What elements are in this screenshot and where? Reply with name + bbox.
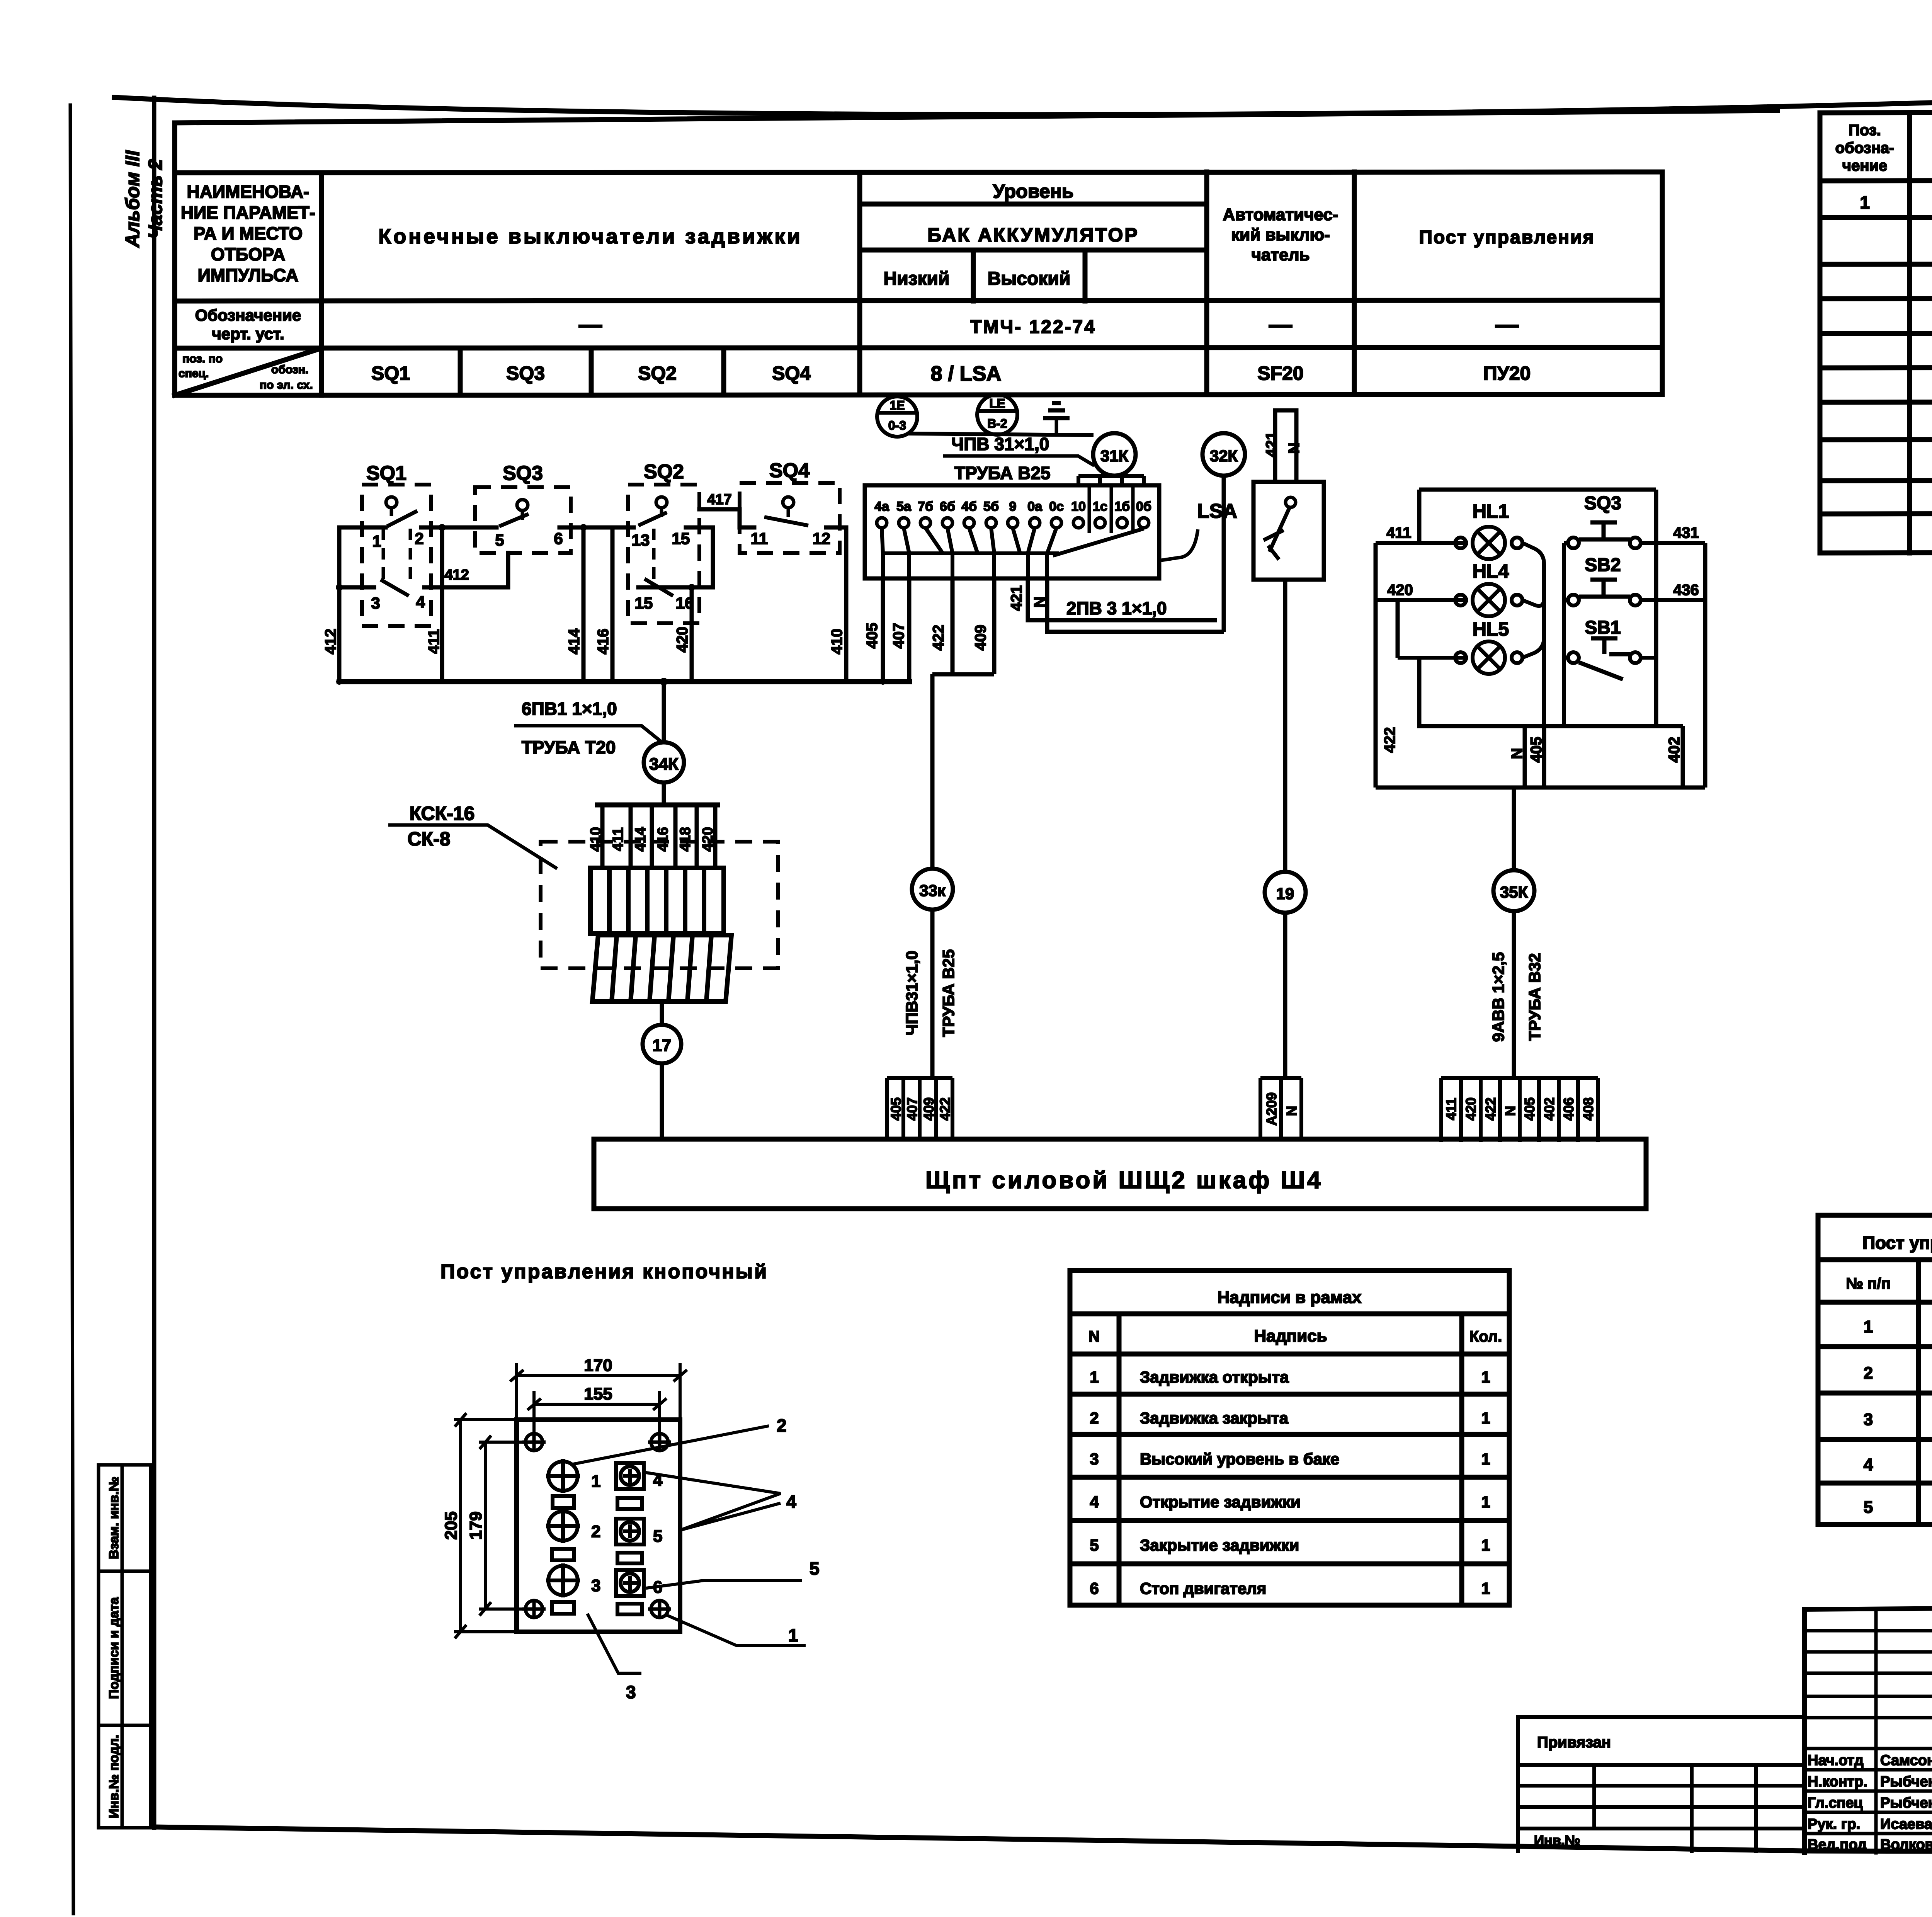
bracket to 31K [1078,476,1144,486]
svg-text:9: 9 [1009,499,1017,514]
terminal strip box LSA [865,485,1159,578]
svg-text:5: 5 [653,1527,662,1546]
svg-text:1: 1 [1481,1450,1490,1468]
svg-text:Привязан: Привязан [1537,1734,1611,1751]
button holes [616,1463,644,1614]
svg-text:Закрытие задвижки: Закрытие задвижки [1140,1536,1299,1554]
cable marker 31K [1093,433,1136,476]
svg-text:422: 422 [1483,1097,1498,1121]
svg-text:410: 410 [828,629,845,655]
svg-text:17: 17 [653,1036,672,1055]
svg-text:Поз.: Поз. [1849,122,1881,139]
limit switch SQ4 [740,459,840,553]
svg-text:3: 3 [591,1576,600,1595]
svg-text:Надпись: Надпись [1254,1327,1327,1345]
svg-text:Самсонов: Самсонов [1880,1752,1932,1769]
svg-text:411: 411 [1443,1098,1459,1120]
svg-text:0б: 0б [1136,499,1151,514]
svg-text:412: 412 [322,629,339,655]
svg-text:Автоматичес-: Автоматичес- [1223,205,1338,224]
svg-text:3: 3 [626,1682,636,1702]
svg-text:3: 3 [1864,1410,1873,1429]
cable marker 19 [1283,580,1287,872]
junction dots on SQ bus [660,678,668,685]
svg-text:Рыбченко: Рыбченко [1880,1795,1932,1811]
svg-text:4: 4 [416,593,425,611]
parts table grid [1820,111,1932,553]
svg-text:422: 422 [937,1097,953,1121]
svg-text:А209: А209 [1264,1092,1279,1126]
svg-text:402: 402 [1666,737,1683,763]
svg-text:414: 414 [566,628,583,654]
signature rows [1808,1752,1932,1853]
svg-text:Н.контр.: Н.контр. [1808,1774,1867,1790]
svg-text:1: 1 [1481,1409,1490,1427]
svg-text:418: 418 [677,827,694,851]
svg-text:436: 436 [1673,582,1699,599]
limit switch SQ1 [362,462,431,626]
svg-text:2: 2 [415,529,423,548]
wire number labels SQ area [322,492,907,654]
svg-text:1: 1 [788,1625,798,1645]
right side wires [1656,543,1705,600]
svg-text:4: 4 [786,1492,796,1512]
svg-text:БАК АККУМУЛЯТОР: БАК АККУМУЛЯТОР [927,224,1139,246]
svg-text:5: 5 [1864,1498,1873,1517]
cable marker 32K [1202,433,1245,476]
svg-text:9АВВ 1×2,5: 9АВВ 1×2,5 [1489,952,1507,1042]
svg-text:обозна-: обозна- [1835,139,1895,156]
title block outline [1804,1604,1932,1853]
svg-text:420: 420 [1387,582,1413,599]
svg-text:—: — [1269,311,1292,337]
svg-text:33к: 33к [919,881,946,900]
svg-text:1: 1 [1481,1579,1490,1597]
svg-text:SQ4: SQ4 [769,459,810,482]
svg-text:421: 421 [1263,432,1280,458]
svg-text:Рыбченко: Рыбченко [1880,1774,1932,1790]
svg-text:420: 420 [1463,1097,1479,1121]
svg-text:405: 405 [1528,737,1545,763]
svg-text:Инв.№ подл.: Инв.№ подл. [107,1735,121,1818]
svg-text:2: 2 [591,1522,600,1541]
svg-text:11: 11 [751,529,768,548]
svg-text:чатель: чатель [1251,245,1310,264]
cable marker 35K [1512,788,1516,870]
svg-text:5: 5 [495,531,504,549]
cable marker 34K [644,742,684,782]
svg-text:НАИМЕНОВА-: НАИМЕНОВА- [187,182,310,202]
svg-text:1б: 1б [1114,499,1130,514]
svg-text:3: 3 [371,594,380,612]
svg-text:0-3: 0-3 [888,418,906,432]
svg-text:6б: 6б [940,499,955,514]
header table grid [175,111,1777,395]
limit switch SQ2 [628,461,699,623]
svg-text:спец.: спец. [179,367,209,380]
wires 421 N from strip [1028,578,1224,632]
svg-text:чение: чение [1842,157,1887,174]
svg-text:407: 407 [904,1097,920,1121]
frame labels table [1070,1271,1509,1605]
svg-text:4а: 4а [874,499,889,514]
svg-text:2: 2 [1864,1364,1873,1383]
svg-text:LSA: LSA [1197,500,1237,522]
svg-text:Взам. инв.№: Взам. инв.№ [107,1476,121,1559]
svg-text:0а: 0а [1027,499,1043,514]
svg-text:SQ3: SQ3 [503,462,543,485]
svg-text:35К: 35К [1500,883,1528,901]
button post body [517,1420,680,1632]
corner screws [522,1434,671,1618]
push button post table [1818,1215,1932,1524]
svg-text:—: — [1495,311,1519,337]
limit switch SQ3 [475,462,571,553]
svg-text:по эл. сх.: по эл. сх. [260,379,313,391]
terminal block lower row [592,935,731,1002]
svg-text:420: 420 [700,827,716,851]
header table texts [179,180,1595,391]
svg-text:15: 15 [672,529,690,548]
svg-text:HL4: HL4 [1473,560,1509,582]
frame bottom border [154,1827,1932,1853]
svg-text:SQ3: SQ3 [1584,493,1621,514]
dimension 179 [479,1436,534,1616]
svg-text:411: 411 [1386,524,1412,541]
svg-text:Пост управления: Пост управления [1419,227,1595,248]
svg-text:407: 407 [890,623,907,649]
svg-text:Кол.: Кол. [1469,1328,1502,1345]
svg-text:1: 1 [1860,192,1870,213]
svg-text:ТРУБА В25: ТРУБА В25 [939,949,957,1037]
svg-text:15: 15 [635,594,653,612]
svg-text:420: 420 [674,627,691,653]
svg-text:ТРУБА В25: ТРУБА В25 [954,463,1051,483]
cable marker 17 [660,1000,664,1025]
svg-text:410: 410 [588,827,604,851]
junction box KSK dashed outline [541,842,778,968]
svg-text:12: 12 [813,529,831,548]
svg-text:409: 409 [972,625,989,651]
svg-text:416: 416 [595,629,612,655]
svg-text:Пост управления кнопочный: Пост управления кнопочный ПКУ15.19.231.5… [1862,1233,1932,1253]
svg-text:N: N [1509,748,1526,759]
svg-text:13: 13 [632,531,650,549]
middle wire to buttons [1544,543,1564,726]
parts table header text [1835,122,1932,549]
svg-text:411: 411 [425,629,442,654]
svg-text:422: 422 [1381,727,1398,753]
svg-text:Открытие задвижки: Открытие задвижки [1140,1493,1301,1511]
svg-text:Щпт силовой ШЩ2 шкаф Ш4: Щпт силовой ШЩ2 шкаф Ш4 [925,1167,1323,1194]
wires 422 409 down to 33k [932,578,994,1078]
svg-text:LE: LE [990,396,1005,410]
svg-text:409: 409 [921,1097,937,1121]
svg-text:РА И МЕСТО: РА И МЕСТО [194,223,303,243]
power cabinet bus bar [594,1139,1646,1209]
svg-text:Задвижка закрыта: Задвижка закрыта [1140,1409,1289,1427]
svg-text:2ПВ 3 1×1,0: 2ПВ 3 1×1,0 [1066,598,1167,618]
svg-text:3: 3 [1090,1450,1099,1468]
svg-text:6ПВ1 1×1,0: 6ПВ1 1×1,0 [522,699,617,719]
svg-text:2: 2 [777,1415,787,1436]
svg-text:N: N [1284,1106,1299,1116]
svg-text:КСК-16: КСК-16 [410,803,475,824]
bus bar terminal group G2 [1260,1078,1301,1140]
svg-text:SQ4: SQ4 [772,362,811,384]
svg-text:1: 1 [1481,1493,1490,1511]
svg-text:405: 405 [1522,1097,1537,1121]
svg-text:SF20: SF20 [1257,362,1304,384]
svg-text:405: 405 [888,1097,904,1121]
svg-text:HL5: HL5 [1473,618,1509,640]
svg-text:1с: 1с [1093,499,1107,514]
svg-text:411: 411 [610,827,626,851]
leader lines and callouts [571,1426,806,1673]
svg-text:ЧПВ 31×1,0: ЧПВ 31×1,0 [951,434,1049,454]
svg-text:421: 421 [1008,585,1025,611]
svg-text:№ п/п: № п/п [1846,1275,1890,1292]
breaker top wires [1275,410,1296,482]
svg-text:Альбом III: Альбом III [122,150,143,248]
svg-text:SQ2: SQ2 [638,362,677,384]
svg-text:Обозначение: Обозначение [195,306,301,324]
svg-text:7б: 7б [918,499,933,514]
sensor connection line [908,434,1094,435]
dimension 155 [527,1391,667,1442]
bus bar terminal group G1 [887,1078,952,1139]
svg-text:Высокий: Высокий [988,269,1071,289]
svg-text:155: 155 [584,1385,612,1403]
svg-text:SB2: SB2 [1585,555,1621,575]
svg-text:SB1: SB1 [1585,617,1621,638]
svg-text:Пост управления кнопочный: Пост управления кнопочный [440,1260,768,1283]
svg-text:Задвижка открыта: Задвижка открыта [1140,1368,1289,1386]
svg-text:поз. по: поз. по [182,352,223,365]
svg-text:ОТБОРА: ОТБОРА [211,244,286,264]
svg-text:1: 1 [591,1472,600,1491]
svg-text:406: 406 [1561,1097,1577,1121]
svg-text:В-2: В-2 [987,417,1007,430]
svg-text:10: 10 [1071,499,1086,514]
left rotated stamp cells [99,1465,151,1828]
svg-text:0с: 0с [1049,499,1064,514]
svg-text:SQ3: SQ3 [506,362,545,384]
svg-text:Низкий: Низкий [883,269,949,289]
svg-text:5: 5 [810,1558,820,1579]
svg-text:6: 6 [554,529,563,548]
svg-text:1: 1 [1481,1368,1490,1386]
junction box KSK wire fan [595,805,720,868]
svg-text:НИЕ ПАРАМЕТ-: НИЕ ПАРАМЕТ- [181,202,315,223]
SQ2 inner dashed channel [652,529,656,584]
cable marker 33k [912,869,953,910]
svg-text:179: 179 [466,1511,485,1539]
svg-text:1Е: 1Е [889,398,905,412]
svg-text:170: 170 [584,1356,612,1375]
svg-text:Рук. гр.: Рук. гр. [1808,1816,1860,1832]
signature grid [1804,1609,1932,1853]
breaker SF20 box [1253,482,1324,580]
svg-text:SQ1: SQ1 [366,462,406,485]
svg-text:Подписи и дата: Подписи и дата [107,1597,121,1699]
svg-text:N: N [1031,597,1048,608]
svg-text:N: N [1089,1328,1100,1345]
svg-text:—: — [579,311,602,337]
svg-text:5а: 5а [896,499,912,514]
svg-text:1: 1 [372,532,381,550]
svg-text:ПУ20: ПУ20 [1483,362,1531,384]
terminal cell separators for 10/1s/1b [1089,485,1133,533]
svg-text:Гл.спец: Гл.спец [1808,1795,1863,1811]
internal terminal links [882,528,1144,578]
lamp block wire labels [1386,524,1699,599]
svg-text:SQ2: SQ2 [644,461,684,483]
svg-text:8 / LSA: 8 / LSA [930,362,1001,385]
svg-text:обозн.: обозн. [271,363,308,376]
svg-text:Высокий уровень в баке: Высокий уровень в баке [1140,1450,1339,1468]
svg-text:Уровень: Уровень [993,180,1073,202]
svg-text:ТРУБА Т20: ТРУБА Т20 [522,737,616,757]
svg-text:205: 205 [442,1511,461,1539]
svg-text:417: 417 [707,492,731,508]
frame left border [152,98,156,1828]
svg-text:Надписи в рамах: Надписи в рамах [1217,1288,1362,1307]
svg-text:ЧПВ31×1,0: ЧПВ31×1,0 [903,951,921,1036]
svg-text:402: 402 [1541,1097,1557,1121]
svg-text:1: 1 [1481,1536,1490,1554]
sheet outer left edge [70,105,73,1914]
svg-text:Конечные выключатели задвижк: Конечные выключатели задвижки [378,225,802,248]
svg-text:Волкова: Волкова [1880,1837,1932,1853]
svg-text:4: 4 [1864,1455,1873,1474]
svg-text:СК-8: СК-8 [407,828,450,850]
level sensor circles [877,395,1017,437]
dimension 170 [510,1363,687,1420]
svg-text:408: 408 [1580,1097,1596,1121]
svg-text:Вед.под: Вед.под [1808,1837,1867,1853]
svg-text:Стоп двигателя: Стоп двигателя [1140,1579,1266,1597]
svg-text:6: 6 [1090,1579,1099,1597]
svg-text:431: 431 [1673,524,1699,541]
svg-text:SQ1: SQ1 [371,362,410,384]
svg-text:1: 1 [1090,1368,1099,1386]
dimension 205 [454,1413,517,1638]
frame top border [114,73,1932,114]
svg-text:черт. уст.: черт. уст. [212,325,284,343]
svg-text:416: 416 [655,827,671,851]
svg-text:HL1: HL1 [1473,500,1509,522]
svg-text:422: 422 [930,625,947,651]
svg-text:Инв.№: Инв.№ [1534,1832,1580,1848]
ground symbol [1043,403,1070,434]
svg-text:34К: 34К [649,755,679,774]
svg-text:414: 414 [633,827,649,851]
svg-text:32К: 32К [1210,447,1238,465]
terminal block upper row [590,868,724,934]
svg-text:кий выклю-: кий выклю- [1231,225,1330,244]
svg-text:19: 19 [1276,885,1294,903]
svg-text:ИМПУЛЬСА: ИМПУЛЬСА [198,265,299,285]
svg-text:5: 5 [1090,1536,1099,1554]
svg-text:1: 1 [1864,1317,1873,1336]
SQ bottom bus [339,679,909,684]
svg-text:412: 412 [444,567,469,583]
svg-text:N: N [1286,443,1303,454]
svg-text:ТМЧ- 122-74: ТМЧ- 122-74 [970,317,1096,337]
lamp block outline [1376,490,1705,788]
svg-text:N: N [1502,1106,1518,1116]
svg-text:31К: 31К [1100,447,1129,465]
svg-text:ТРУБА В32: ТРУБА В32 [1526,953,1544,1041]
svg-text:4б: 4б [961,499,977,514]
svg-text:Исаева: Исаева [1880,1816,1932,1832]
svg-text:Часть 2: Часть 2 [145,159,166,239]
svg-text:Нач.отд: Нач.отд [1808,1752,1864,1769]
bus bar terminal group G3 [1441,1078,1598,1142]
SQ1 inner dashed channel [382,529,385,585]
svg-text:4: 4 [1090,1493,1099,1511]
wires of SQ chain [339,509,909,742]
svg-text:405: 405 [864,623,881,649]
svg-text:2: 2 [1090,1409,1099,1427]
svg-text:5б: 5б [983,499,999,514]
privyazan box [1518,1717,1804,1851]
lamp holes [546,1459,580,1614]
